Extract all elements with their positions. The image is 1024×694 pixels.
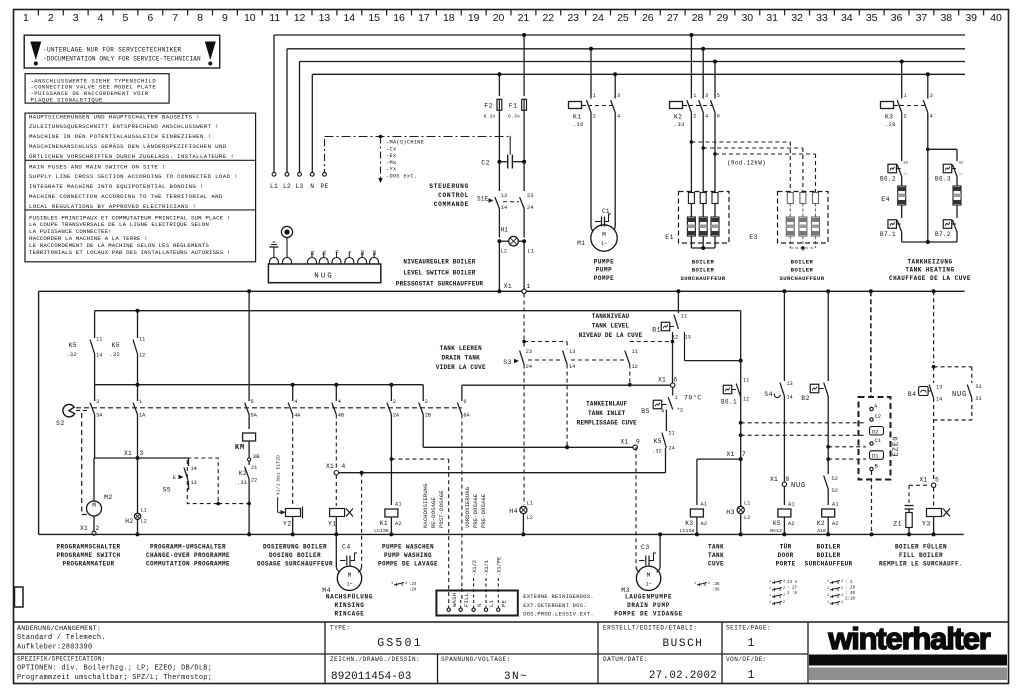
- svg-text:33: 33: [816, 12, 828, 24]
- svg-text:PE: PE: [320, 183, 328, 190]
- svg-text:6.3A: 6.3A: [508, 114, 520, 120]
- svg-text:1~: 1~: [646, 581, 652, 587]
- svg-text:8: 8: [197, 12, 203, 24]
- svg-text:DATUM/DATE:: DATUM/DATE:: [603, 656, 648, 663]
- svg-text:2: 2: [96, 525, 100, 532]
- svg-text:L1: L1: [141, 508, 147, 514]
- svg-text:DOS.PROD.LESSIV.EXT.: DOS.PROD.LESSIV.EXT.: [523, 612, 594, 618]
- svg-text:.32: .32: [652, 449, 662, 455]
- svg-text::24: :24: [409, 583, 417, 587]
- svg-text:.16: .16: [573, 122, 584, 128]
- svg-text:PORTE: PORTE: [776, 560, 796, 567]
- svg-text:28: 28: [692, 12, 704, 24]
- svg-text:27.02.2002: 27.02.2002: [649, 670, 717, 682]
- svg-text:DOSING BOILER: DOSING BOILER: [269, 552, 321, 559]
- svg-text:BOILER FÜLLEN: BOILER FÜLLEN: [895, 544, 947, 551]
- svg-text:34: 34: [841, 12, 853, 24]
- svg-text:1: 1: [827, 594, 829, 598]
- svg-text:PROGRAMM-UMSCHALTER: PROGRAMM-UMSCHALTER: [150, 544, 226, 551]
- svg-text:-UNTERLAGE NUR FÜR SERVICETECH: -UNTERLAGE NUR FÜR SERVICETECHNIKER: [43, 47, 182, 54]
- svg-text:2: 2: [708, 582, 710, 586]
- svg-text:2A: 2A: [393, 413, 400, 419]
- svg-text:1: 1: [593, 93, 596, 99]
- svg-text:S1: S1: [976, 384, 982, 390]
- svg-text:K5: K5: [69, 342, 77, 349]
- svg-text:11: 11: [96, 337, 102, 343]
- svg-text:.32: .32: [109, 352, 120, 358]
- svg-text:F1: F1: [509, 103, 518, 110]
- svg-text:POMPE DE LAVAGE: POMPE DE LAVAGE: [378, 560, 438, 567]
- svg-text:4: 4: [98, 12, 104, 24]
- svg-text:2:10: 2:10: [845, 598, 856, 602]
- svg-text:Y3: Y3: [922, 521, 931, 528]
- svg-text:NACHSPÜLUNG: NACHSPÜLUNG: [326, 594, 373, 601]
- svg-text:1: 1: [827, 601, 829, 605]
- svg-text:X1: X1: [621, 439, 629, 446]
- svg-text:CHANGE-OVER PROGRAMME: CHANGE-OVER PROGRAMME: [146, 552, 230, 559]
- svg-text:PLAQUE SIGNALETIQUE: PLAQUE SIGNALETIQUE: [31, 96, 104, 103]
- svg-text:KM: KM: [235, 444, 245, 452]
- svg-text:S1E: S1E: [477, 196, 489, 203]
- svg-text:Z1: Z1: [893, 521, 902, 528]
- svg-text:3: 3: [705, 93, 708, 99]
- svg-text:1: 1: [748, 669, 755, 682]
- svg-text:TANK INLET: TANK INLET: [588, 410, 626, 417]
- svg-text:DOSAGE SURCHAUFFEUR: DOSAGE SURCHAUFFEUR: [257, 560, 333, 567]
- svg-text:L1: L1: [270, 183, 278, 190]
- svg-text:2: 2: [425, 399, 428, 405]
- svg-text:S1: S1: [310, 250, 316, 256]
- svg-text:37: 37: [916, 12, 928, 24]
- svg-text:12: 12: [632, 364, 638, 370]
- svg-text:1A: 1A: [139, 413, 146, 419]
- svg-text:-X1/PE: -X1/PE: [497, 557, 503, 576]
- svg-text:K2: K2: [674, 114, 682, 121]
- svg-text:RINCAGE: RINCAGE: [334, 611, 364, 618]
- svg-text:B7.2: B7.2: [935, 231, 951, 238]
- svg-text:B6.2: B6.2: [880, 176, 896, 183]
- svg-text:Programmzeit umschaltbar; SPZ/: Programmzeit umschaltbar; SPZ/L; Thermos…: [17, 674, 212, 682]
- svg-text:S2: S2: [360, 250, 366, 256]
- svg-text:-X1/2: -X1/2: [472, 560, 478, 576]
- svg-text:PUMP: PUMP: [596, 267, 612, 274]
- svg-text:4: 4: [705, 114, 708, 120]
- svg-text:K5: K5: [112, 342, 120, 349]
- svg-text:BUSCH: BUSCH: [662, 638, 703, 650]
- svg-text:H1: H1: [501, 227, 509, 234]
- svg-text:3: 3: [617, 93, 620, 99]
- svg-text:HAUPTSICHERUNGEN UND HAUPTSCHA: HAUPTSICHERUNGEN UND HAUPTSCHALTER BAUSE…: [29, 113, 200, 120]
- svg-text:K2: K2: [817, 520, 825, 527]
- svg-text:NUG: NUG: [791, 482, 806, 490]
- svg-text:PRE-DOSAGE: PRE-DOSAGE: [481, 494, 487, 528]
- svg-text:SURCHAUFFEUR: SURCHAUFFEUR: [680, 275, 725, 282]
- svg-text:ÖRTLICHEN VORSCHRIFTEN DURCH Z: ÖRTLICHEN VORSCHRIFTEN DURCH ZUGELASS. I…: [29, 153, 234, 160]
- svg-text:BOILER: BOILER: [791, 267, 814, 274]
- svg-text:F2: F2: [484, 103, 493, 110]
- svg-text:K5: K5: [654, 438, 662, 445]
- svg-text:3N~: 3N~: [504, 671, 528, 683]
- svg-text:13: 13: [569, 349, 575, 355]
- svg-text:24: 24: [527, 205, 533, 211]
- svg-text:14 4: 14 4: [787, 581, 798, 585]
- svg-text:L3: L3: [295, 183, 303, 190]
- svg-text:1: 1: [769, 587, 771, 591]
- svg-text:S3: S3: [503, 359, 512, 366]
- svg-text:TANK LEEREN: TANK LEEREN: [440, 345, 483, 352]
- svg-text:1: 1: [748, 637, 755, 650]
- svg-text:-Mx: -Mx: [386, 160, 396, 166]
- svg-text:2: 2: [393, 399, 396, 405]
- svg-text:14: 14: [191, 466, 197, 472]
- svg-text:ZEICHN./DRAWG./DESSIN:: ZEICHN./DRAWG./DESSIN:: [330, 656, 420, 663]
- svg-text:L1: L1: [744, 501, 750, 507]
- svg-text:SURCHAUFFEUR: SURCHAUFFEUR: [805, 560, 853, 567]
- svg-text:A16: A16: [817, 528, 826, 534]
- svg-text:3: 3: [96, 399, 99, 405]
- svg-text:4: 4: [342, 463, 346, 470]
- svg-text:L1: L1: [527, 501, 533, 507]
- svg-text:K1: K1: [380, 520, 388, 527]
- svg-text:21: 21: [518, 12, 530, 24]
- svg-text:ÄNDERUNG/CHANGEMENT:: ÄNDERUNG/CHANGEMENT:: [17, 624, 101, 632]
- svg-text:7: 7: [742, 451, 746, 458]
- svg-text:11: 11: [139, 337, 145, 343]
- svg-text:30: 30: [741, 12, 753, 24]
- svg-text:31: 31: [903, 173, 908, 177]
- svg-text:1~: 1~: [601, 241, 607, 247]
- svg-text:22: 22: [542, 12, 554, 24]
- svg-text:MACHINE CONNECTION ACCORDING T: MACHINE CONNECTION ACCORDING TO THE TERR…: [29, 193, 223, 200]
- svg-text:PRE-DOSAGE: PRE-DOSAGE: [473, 494, 479, 528]
- svg-text:C1: C1: [875, 438, 881, 444]
- svg-text:1: 1: [675, 395, 678, 401]
- svg-text:14: 14: [787, 395, 793, 401]
- svg-text:1: 1: [769, 594, 771, 598]
- svg-text:13: 13: [936, 385, 942, 391]
- svg-text:LC1SK: LC1SK: [374, 528, 389, 534]
- svg-text:-X1/1: -X1/1: [484, 560, 490, 576]
- svg-text:4: 4: [930, 114, 933, 120]
- svg-text:TANKEINLAUF: TANKEINLAUF: [586, 401, 628, 408]
- svg-text:6.3A: 6.3A: [484, 114, 496, 120]
- svg-text:23: 23: [527, 193, 533, 199]
- svg-text:1: 1: [827, 580, 829, 584]
- svg-text:(9od.12kW): (9od.12kW): [727, 160, 766, 167]
- svg-text:LAUGENPUMPE: LAUGENPUMPE: [625, 594, 672, 601]
- svg-text:24: 24: [669, 446, 675, 452]
- svg-text:12: 12: [139, 353, 145, 359]
- svg-text:2: 2: [783, 601, 785, 605]
- svg-text:EXT.DETERGENT DOS.: EXT.DETERGENT DOS.: [523, 603, 587, 609]
- svg-text:6: 6: [674, 377, 678, 384]
- svg-text:SURCHAUFFEUR: SURCHAUFFEUR: [779, 275, 824, 282]
- svg-text:2B: 2B: [425, 413, 431, 419]
- svg-text:6: 6: [463, 399, 466, 405]
- svg-text:32: 32: [903, 162, 908, 166]
- svg-text:WASH: WASH: [451, 593, 458, 607]
- svg-text:X1: X1: [770, 476, 778, 483]
- svg-text:BOILER: BOILER: [692, 259, 715, 266]
- svg-text:K5: K5: [773, 520, 781, 527]
- svg-text:NIVEAUREGLER BOILER: NIVEAUREGLER BOILER: [403, 259, 475, 266]
- svg-text:19: 19: [468, 12, 480, 24]
- svg-text:36: 36: [891, 12, 903, 24]
- svg-text:14: 14: [936, 397, 942, 403]
- svg-text:22: 22: [251, 478, 257, 484]
- svg-text:PUMPE WASCHEN: PUMPE WASCHEN: [382, 544, 434, 551]
- svg-text:PROGRAMMATEUR: PROGRAMMATEUR: [62, 560, 114, 567]
- svg-text:2: 2: [593, 114, 596, 120]
- svg-text:L2: L2: [501, 249, 508, 255]
- svg-text:S2: S2: [56, 420, 65, 427]
- svg-text::24: :24: [409, 589, 417, 593]
- svg-text:32: 32: [791, 12, 803, 24]
- svg-text:DOSIERUNG BOILER: DOSIERUNG BOILER: [263, 544, 327, 551]
- svg-text:OPTIONEN: div. Boilerhzg.; LP;: OPTIONEN: div. Boilerhzg.; LP; EZEO; DB/…: [17, 665, 212, 673]
- svg-text:1: 1: [769, 580, 771, 584]
- svg-text:PUMP WASHING: PUMP WASHING: [384, 552, 432, 559]
- svg-text:X1: X1: [920, 477, 928, 484]
- svg-text:4: 4: [294, 399, 297, 405]
- svg-text::36: :36: [712, 583, 720, 587]
- svg-text:20: 20: [493, 12, 505, 24]
- svg-text:2: 2: [841, 601, 843, 605]
- svg-text:3: 3: [140, 450, 144, 457]
- svg-text:E1: E1: [665, 234, 674, 241]
- svg-text:13: 13: [501, 193, 507, 199]
- svg-text:TANK: TANK: [708, 544, 724, 551]
- svg-text:27: 27: [667, 12, 679, 24]
- svg-text:: 40: : 40: [845, 592, 856, 596]
- svg-text:5: 5: [251, 399, 254, 405]
- svg-text:4: 4: [338, 399, 341, 405]
- svg-text:Y2: Y2: [283, 521, 292, 528]
- svg-text:B6.3: B6.3: [935, 176, 951, 183]
- svg-text:40: 40: [990, 12, 1002, 24]
- svg-text:COMMANDE: COMMANDE: [434, 201, 469, 208]
- svg-text:X1: X1: [124, 450, 132, 457]
- svg-text:-Ex: -Ex: [386, 153, 396, 159]
- svg-text:TANKNIVEAU: TANKNIVEAU: [592, 313, 630, 320]
- svg-text:A1: A1: [701, 502, 708, 508]
- svg-text:13: 13: [787, 381, 793, 387]
- svg-text:A2: A2: [788, 521, 795, 527]
- svg-text:14: 14: [343, 12, 355, 24]
- svg-text:L1: L1: [528, 249, 535, 255]
- svg-text:C1: C1: [602, 208, 610, 215]
- svg-text:3A: 3A: [96, 413, 103, 419]
- svg-text:BOILER: BOILER: [817, 544, 841, 551]
- svg-text:2: 2: [841, 587, 843, 591]
- svg-text:REMPLIR LE SURCHAUFF.: REMPLIR LE SURCHAUFF.: [879, 560, 963, 567]
- svg-text:POMPE: POMPE: [594, 275, 615, 282]
- svg-text:LOCAL REGULATIONS BY APPROVED: LOCAL REGULATIONS BY APPROVED ELECTRICIA…: [29, 203, 196, 210]
- svg-text:21: 21: [669, 431, 675, 437]
- svg-text:A1: A1: [832, 502, 839, 508]
- svg-text:11: 11: [743, 378, 749, 384]
- svg-text:23: 23: [526, 349, 532, 355]
- svg-text:N: N: [334, 250, 340, 253]
- svg-text:B1: B1: [652, 327, 661, 334]
- svg-text:: 28: : 28: [845, 587, 856, 591]
- svg-text:1: 1: [694, 582, 696, 586]
- svg-text:COMMUTATION PROGRAMME: COMMUTATION PROGRAMME: [146, 560, 230, 567]
- svg-text:K2: K2: [239, 470, 247, 477]
- svg-text:18: 18: [443, 12, 455, 24]
- svg-text:X1/1 bei ELT2D: X1/1 bei ELT2D: [276, 455, 282, 495]
- svg-text:H3: H3: [726, 509, 735, 516]
- svg-text:SEITE/PAGE:: SEITE/PAGE:: [726, 625, 771, 632]
- svg-text:.33: .33: [237, 480, 247, 486]
- svg-text:VON/OF/DE:: VON/OF/DE:: [726, 656, 767, 663]
- svg-text:TANK HEATING: TANK HEATING: [905, 267, 954, 274]
- svg-text:11: 11: [269, 12, 280, 24]
- svg-text:5A: 5A: [251, 413, 258, 419]
- svg-text:Y1: Y1: [328, 521, 337, 528]
- svg-text:PE: PE: [501, 599, 508, 607]
- svg-text:-Cx: -Cx: [386, 146, 396, 152]
- svg-text:A2: A2: [832, 521, 839, 527]
- svg-text:L1: L1: [488, 599, 495, 607]
- svg-text:3B: 3B: [253, 453, 261, 460]
- svg-text:S4: S4: [764, 391, 773, 398]
- svg-text:13: 13: [319, 12, 331, 24]
- svg-text:S1: S1: [976, 396, 982, 402]
- svg-text:25: 25: [617, 12, 629, 24]
- svg-text:LC1SK: LC1SK: [680, 528, 695, 534]
- svg-text:.32: .32: [66, 352, 77, 358]
- svg-text:M: M: [602, 232, 606, 239]
- svg-text:-DOCUMENTATION ONLY FOR SERVIC: -DOCUMENTATION ONLY FOR SERVICE-TECHNICI…: [43, 56, 201, 63]
- svg-text:TÜR: TÜR: [780, 544, 792, 551]
- svg-text:1: 1: [769, 601, 771, 605]
- svg-text:9: 9: [636, 439, 640, 446]
- svg-text:24: 24: [526, 364, 532, 370]
- svg-text:S2: S2: [832, 476, 838, 482]
- svg-text:TERRITORIALS ET LOCAUX PAR DES: TERRITORIALS ET LOCAUX PAR DES INSTALLAT…: [29, 249, 231, 256]
- svg-text:26: 26: [642, 12, 654, 24]
- svg-text:2: 2: [783, 587, 785, 591]
- svg-text:TYPE:: TYPE:: [330, 625, 351, 632]
- svg-text:1: 1: [693, 93, 696, 99]
- svg-text:Aufkleber:2803390: Aufkleber:2803390: [17, 644, 92, 652]
- svg-text:11: 11: [632, 349, 638, 355]
- svg-text:M: M: [348, 572, 352, 579]
- svg-text:CONTROL: CONTROL: [438, 192, 469, 199]
- svg-text:B7.1: B7.1: [880, 231, 896, 238]
- svg-text:TANK: TANK: [708, 552, 724, 559]
- svg-text:B4: B4: [908, 391, 917, 398]
- svg-text:8: 8: [786, 476, 790, 483]
- svg-text:2: 2: [405, 582, 407, 586]
- svg-text:A1: A1: [395, 502, 402, 508]
- svg-text:B2: B2: [801, 395, 810, 402]
- svg-text:A2: A2: [701, 521, 708, 527]
- svg-text:.33: .33: [674, 122, 685, 128]
- svg-text:892011454-03: 892011454-03: [331, 671, 411, 683]
- svg-text:REMPLISSAGE CUVE: REMPLISSAGE CUVE: [577, 419, 637, 426]
- svg-text:STEUERUNG: STEUERUNG: [429, 183, 469, 190]
- svg-text:S2: S2: [372, 250, 378, 256]
- svg-text:X1: X1: [727, 451, 735, 458]
- svg-text:17: 17: [418, 12, 430, 24]
- svg-text:1: 1: [139, 399, 142, 405]
- svg-text:E3: E3: [749, 234, 758, 241]
- svg-text:NACHDOSIERUNG: NACHDOSIERUNG: [423, 483, 429, 528]
- svg-text:2: 2: [841, 580, 843, 584]
- svg-text:BOILER: BOILER: [817, 552, 841, 559]
- svg-text:6A: 6A: [463, 413, 470, 419]
- svg-text:4B: 4B: [338, 413, 344, 419]
- svg-text:TANKHEIZUNG: TANKHEIZUNG: [907, 259, 952, 266]
- svg-text:POST-DOSAGE: POST-DOSAGE: [439, 490, 445, 528]
- svg-text:PROGRAMME SWITCH: PROGRAMME SWITCH: [56, 552, 120, 559]
- svg-text:EXTERNE REINIGERDOS.: EXTERNE REINIGERDOS.: [523, 594, 594, 600]
- svg-text:6: 6: [147, 12, 153, 24]
- svg-text:M: M: [647, 572, 651, 579]
- svg-text:B5: B5: [641, 408, 650, 415]
- svg-text:: 27: : 27: [787, 587, 798, 591]
- svg-text:14: 14: [96, 353, 102, 359]
- svg-text:11: 11: [681, 314, 687, 320]
- svg-text:6: 6: [717, 114, 720, 120]
- svg-text:16: 16: [393, 12, 405, 24]
- svg-text:15: 15: [368, 12, 380, 24]
- svg-text:SUPPLY LINE CROSS SECTION ACCO: SUPPLY LINE CROSS SECTION ACCORDING TO C…: [29, 173, 238, 180]
- svg-text:-Yx: -Yx: [386, 167, 396, 173]
- svg-text:D2: D2: [872, 429, 878, 435]
- svg-text:-DOS ext.: -DOS ext.: [386, 174, 417, 180]
- svg-text:PROGRAMMSCHALTER: PROGRAMMSCHALTER: [56, 544, 120, 551]
- svg-text:A2: A2: [395, 521, 402, 527]
- svg-text:DRAIN PUMP: DRAIN PUMP: [627, 602, 670, 609]
- svg-text:POMPE DE VIDANGE: POMPE DE VIDANGE: [614, 611, 683, 618]
- svg-text:7: 7: [172, 12, 178, 24]
- svg-text:70°C: 70°C: [684, 394, 702, 402]
- svg-text:VIDER LA CUVE: VIDER LA CUVE: [436, 364, 486, 371]
- svg-text:1: 1: [23, 12, 29, 24]
- svg-text:winterhalter: winterhalter: [827, 621, 990, 656]
- svg-text:MASCHINE IN DEN POTENTIALAUSGL: MASCHINE IN DEN POTENTIALAUSGLEICH EINBE…: [29, 133, 211, 140]
- svg-text:21: 21: [251, 465, 257, 471]
- svg-text:L2: L2: [283, 183, 291, 190]
- svg-text:31: 31: [766, 12, 778, 24]
- svg-text:2: 2: [48, 12, 54, 24]
- svg-text:38: 38: [940, 12, 952, 24]
- svg-text::36: :36: [712, 589, 720, 593]
- svg-text:3: 3: [930, 93, 933, 99]
- svg-text:5: 5: [123, 12, 129, 24]
- svg-text:X1: X1: [504, 283, 512, 290]
- svg-text:1: 1: [904, 93, 907, 99]
- svg-text:FILL BOILER: FILL BOILER: [899, 552, 943, 559]
- svg-text:1~: 1~: [346, 581, 352, 587]
- svg-text:NUG: NUG: [314, 273, 334, 281]
- svg-text:MASCHINENANSCHLUSS GEMÄSS DEN: MASCHINENANSCHLUSS GEMÄSS DEN LÄNDERSPEZ…: [29, 143, 227, 150]
- svg-text:2: 2: [841, 594, 843, 598]
- svg-text:39: 39: [965, 12, 977, 24]
- svg-text:X1: X1: [80, 525, 88, 532]
- svg-text:5: 5: [935, 477, 939, 484]
- svg-text:X1: X1: [658, 377, 666, 384]
- svg-text:4: 4: [661, 409, 664, 415]
- svg-text:EZE0: EZE0: [893, 436, 901, 457]
- svg-text:31: 31: [959, 173, 964, 177]
- svg-text:13: 13: [191, 480, 197, 486]
- svg-text:L: L: [347, 250, 353, 253]
- svg-text:BOILER: BOILER: [692, 267, 715, 274]
